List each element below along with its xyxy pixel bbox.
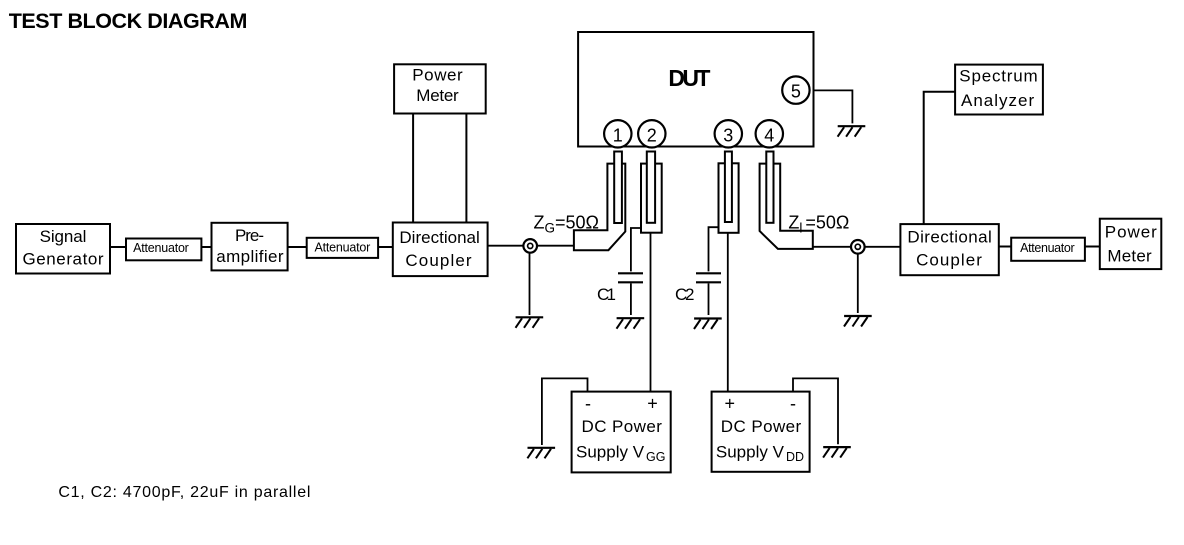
svg-text:Signal: Signal bbox=[40, 227, 87, 246]
svg-text:4: 4 bbox=[764, 125, 774, 145]
box Power Meter left bbox=[394, 64, 486, 113]
pin 1 circle bbox=[604, 120, 631, 147]
svg-text:C1: C1 bbox=[597, 285, 616, 304]
wire VGG minus to ground bbox=[542, 378, 588, 445]
svg-text:Zl=50Ω: Zl=50Ω bbox=[788, 213, 849, 236]
svg-text:C1, C2: 4700pF, 22uF in parall: C1, C2: 4700pF, 22uF in parallel bbox=[58, 484, 310, 501]
svg-text:Attenuator: Attenuator bbox=[315, 241, 371, 255]
box Attenuator3 bbox=[1011, 238, 1085, 261]
capacitor C2 bbox=[675, 273, 721, 315]
svg-text:Directional: Directional bbox=[399, 228, 479, 247]
wire connector G to Z_G line bbox=[536, 245, 574, 247]
svg-text:+: + bbox=[725, 394, 736, 414]
box Directional Coupler right bbox=[900, 224, 998, 275]
svg-text:Generator: Generator bbox=[22, 250, 103, 269]
stub shell pin 3 bbox=[719, 163, 739, 233]
pin 4 circle bbox=[756, 120, 783, 147]
box DC Power Supply VGG bbox=[572, 392, 671, 473]
svg-text:TEST BLOCK DIAGRAM: TEST BLOCK DIAGRAM bbox=[9, 9, 248, 33]
connector T (coax symbol) bbox=[851, 240, 865, 254]
ground at connector T bbox=[844, 316, 872, 327]
wire Attenuator1 to Pre-amplifier bbox=[201, 246, 211, 248]
ground at C1 bbox=[617, 318, 645, 329]
ground at pin 5 bbox=[838, 126, 866, 137]
wire Pre-amplifier to Attenuator2 bbox=[288, 246, 307, 248]
wire stub2 to VGG plus bbox=[650, 233, 652, 392]
wire Directional Coupler right to Attenuator3 bbox=[999, 246, 1011, 248]
wire connector T down to ground bbox=[857, 253, 859, 313]
wire Signal Generator to Attenuator1 bbox=[110, 246, 126, 248]
wire VDD minus to ground bbox=[793, 378, 838, 444]
stub shell pin 2 bbox=[641, 164, 662, 233]
svg-text:Meter: Meter bbox=[416, 86, 459, 105]
pin 1 lead (inner conductor) bbox=[614, 152, 622, 224]
svg-text:-: - bbox=[585, 394, 591, 414]
svg-text:Attenuator: Attenuator bbox=[1020, 241, 1075, 255]
svg-text:2: 2 bbox=[647, 125, 657, 145]
svg-text:5: 5 bbox=[791, 81, 801, 101]
box Spectrum Analyzer bbox=[955, 65, 1043, 115]
wire stub3 to VDD plus bbox=[727, 233, 729, 392]
wire Power Meter left vertical 1 bbox=[412, 114, 414, 223]
svg-text:3: 3 bbox=[723, 125, 733, 145]
svg-text:Spectrum: Spectrum bbox=[959, 67, 1037, 86]
pin 4 lead (inner conductor) bbox=[766, 152, 773, 223]
svg-text:Meter: Meter bbox=[1107, 247, 1152, 266]
svg-text:DC Power: DC Power bbox=[582, 417, 663, 436]
svg-text:Coupler: Coupler bbox=[405, 251, 472, 270]
wire Attenuator2 to Directional Coupler left bbox=[378, 246, 393, 248]
svg-text:DUT: DUT bbox=[668, 65, 710, 91]
tab wire stub3 to C2 bbox=[709, 227, 719, 271]
ground at C2 bbox=[694, 319, 722, 330]
svg-text:Pre-: Pre- bbox=[235, 226, 264, 245]
wire connector G down to ground bbox=[529, 252, 531, 315]
wire Z_l line to connector T bbox=[813, 246, 852, 248]
connector G (coax symbol) bbox=[523, 239, 537, 253]
box Signal Generator bbox=[16, 224, 110, 274]
transmission line Z_l (microstrip with mitred bend from pin 4) bbox=[760, 164, 813, 249]
svg-text:Attenuator: Attenuator bbox=[133, 241, 189, 255]
pin 2 circle bbox=[638, 120, 665, 147]
pin 3 circle bbox=[715, 120, 742, 147]
svg-text:Analyzer: Analyzer bbox=[961, 91, 1035, 110]
svg-text:C2: C2 bbox=[675, 285, 695, 304]
transmission line Z_G (microstrip with mitred bend to pin 1) bbox=[574, 164, 625, 251]
tab wire stub2 to C1 bbox=[631, 228, 641, 271]
svg-text:Directional: Directional bbox=[907, 228, 991, 247]
svg-text:amplifier: amplifier bbox=[216, 247, 284, 266]
box Power Meter right bbox=[1100, 219, 1162, 269]
pin 3 lead (inner conductor) bbox=[725, 152, 732, 223]
wire Attenuator3 to Power Meter right bbox=[1085, 246, 1100, 248]
wire Spectrum Analyzer to Directional Coupler right bbox=[924, 92, 955, 224]
ground at VDD minus bbox=[823, 447, 851, 458]
box DC Power Supply VDD bbox=[712, 392, 810, 472]
svg-text:-: - bbox=[790, 394, 796, 414]
wire connector T to Directional Coupler right bbox=[864, 246, 900, 248]
pin 2 lead (inner conductor) bbox=[647, 152, 655, 223]
svg-text:Power: Power bbox=[1105, 223, 1157, 242]
box Directional Coupler left bbox=[393, 223, 488, 277]
wire pin 5 to ground bbox=[814, 90, 853, 123]
wire Power Meter left vertical 2 bbox=[465, 114, 467, 223]
box Pre-amplifier bbox=[212, 223, 288, 271]
capacitor C1 bbox=[597, 273, 643, 315]
box Attenuator2 bbox=[307, 238, 378, 258]
svg-text:DC Power: DC Power bbox=[721, 417, 802, 436]
svg-text:Coupler: Coupler bbox=[916, 251, 982, 270]
wire Directional Coupler left to connector G bbox=[488, 245, 523, 247]
svg-text:1: 1 bbox=[613, 125, 623, 145]
pin 5 circle bbox=[782, 76, 809, 103]
svg-text:Power: Power bbox=[412, 66, 463, 85]
ground at VGG minus bbox=[527, 448, 555, 459]
DUT box bbox=[578, 32, 813, 147]
ground at connector G bbox=[516, 317, 544, 328]
svg-text:+: + bbox=[647, 394, 658, 414]
box Attenuator1 bbox=[126, 239, 201, 261]
